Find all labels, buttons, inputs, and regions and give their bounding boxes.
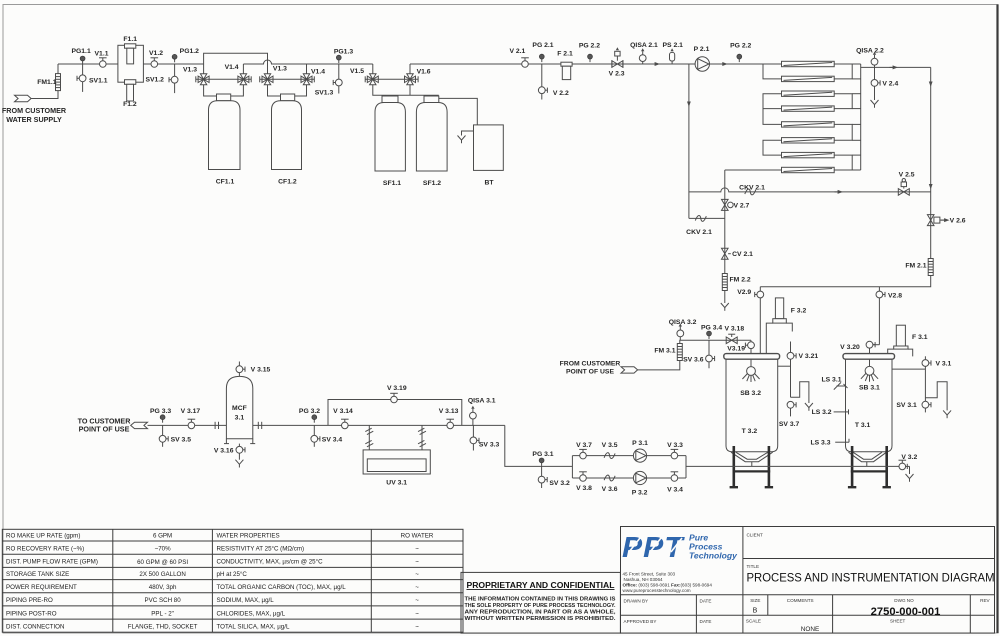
wire V1.5 riser	[372, 64, 374, 74]
svg-text:V 3.4: V 3.4	[667, 487, 683, 494]
tank T3.2 legs	[730, 446, 774, 487]
svg-text:V1.1: V1.1	[95, 51, 109, 58]
RO vessel 2	[782, 76, 835, 81]
valve V1.3 (CF1.1 inlet)	[183, 67, 209, 85]
flow meter FM2.2	[722, 274, 751, 291]
svg-text:~: ~	[415, 584, 419, 591]
wire RO permeate header	[852, 64, 861, 170]
svg-text:FM 2.2: FM 2.2	[730, 277, 751, 284]
svg-text:RESISTIVITY AT 25°C (MΩ/cm): RESISTIVITY AT 25°C (MΩ/cm)	[217, 545, 305, 552]
svg-text:V 3.15: V 3.15	[251, 367, 271, 374]
wire product drain	[871, 100, 879, 108]
svg-text:V1.3: V1.3	[183, 67, 197, 74]
proprietary notice box	[461, 572, 620, 633]
valve V1.4 (CF1.1 outlet)	[225, 64, 249, 85]
svg-text:SV 3.3: SV 3.3	[479, 442, 500, 449]
svg-text:THE INFORMATION CONTAINED IN T: THE INFORMATION CONTAINED IN THIS DRAWIN…	[465, 596, 616, 602]
svg-text:Technology: Technology	[689, 551, 738, 561]
flow arrow	[719, 62, 728, 66]
valve V3.3	[667, 442, 683, 459]
svg-text:V1.6: V1.6	[417, 69, 431, 76]
vent filter F3.2	[766, 298, 806, 354]
valve CV2.1	[722, 248, 754, 259]
valve V1.4 (CF1.2 outlet)	[301, 69, 325, 85]
wire RO right header stage4	[834, 155, 852, 170]
svg-text:V 3.8: V 3.8	[576, 485, 592, 492]
svg-text:V 3.7: V 3.7	[576, 442, 592, 449]
svg-text:PG 3.1: PG 3.1	[532, 451, 553, 458]
svg-text:V1.2: V1.2	[149, 50, 163, 57]
svg-text:2X 500 GALLON: 2X 500 GALLON	[139, 571, 185, 578]
svg-text:PIPING POST-RO: PIPING POST-RO	[6, 610, 57, 617]
wire BT drain	[458, 131, 474, 143]
svg-text:V 2.4: V 2.4	[882, 80, 898, 87]
svg-text:PG1.1: PG1.1	[71, 48, 90, 55]
svg-text:LS 3.1: LS 3.1	[821, 377, 841, 384]
RO vessel 3	[782, 91, 835, 96]
flex connector V3.6	[602, 475, 618, 493]
svg-text:PG 3.4: PG 3.4	[701, 324, 722, 331]
svg-text:FM 3.1: FM 3.1	[654, 348, 675, 355]
svg-text:F 3.2: F 3.2	[791, 308, 807, 315]
svg-text:~: ~	[415, 610, 419, 617]
svg-text:V 3.21: V 3.21	[799, 353, 819, 360]
svg-text:V 3.17: V 3.17	[181, 408, 201, 415]
svg-text:V 3.20: V 3.20	[840, 344, 860, 351]
svg-text:SV 3.7: SV 3.7	[779, 421, 800, 428]
node FROM CUSTOMER POINT OF USE flag	[560, 361, 638, 376]
svg-text:CF1.1: CF1.1	[216, 178, 235, 185]
svg-text:P 3.1: P 3.1	[632, 440, 648, 447]
flow arrow	[835, 190, 844, 194]
sample valve SV3.7	[779, 401, 800, 428]
wire RO concentrate drop B	[724, 170, 726, 218]
wire concentrate drain leg	[724, 218, 726, 303]
pressure switch PS2.1	[662, 42, 683, 64]
wire return riser	[680, 340, 751, 343]
svg-text:SF1.1: SF1.1	[383, 180, 401, 187]
svg-text:FROM CUSTOMER: FROM CUSTOMER	[560, 361, 621, 368]
svg-text:PPL - 2": PPL - 2"	[151, 610, 174, 617]
svg-text:PIPING PRE-RO: PIPING PRE-RO	[6, 597, 53, 604]
RO vessel 8	[782, 167, 835, 172]
sample valve SV3.3	[470, 425, 500, 450]
svg-text:SB 3.2: SB 3.2	[740, 390, 761, 397]
instrument QISA2.2	[856, 48, 884, 68]
valve V3.8	[576, 472, 592, 492]
svg-text:SCALE: SCALE	[746, 619, 761, 624]
wire to pump suction	[505, 425, 573, 466]
instrument QISA2.1	[630, 42, 658, 64]
wire RO left header stage3	[763, 140, 782, 155]
wire RO concentrate outlet	[725, 169, 782, 171]
wire tank drain	[906, 466, 914, 481]
wire RO right header stage1	[834, 64, 852, 79]
svg-text:~: ~	[415, 597, 419, 604]
svg-text:TOTAL SILICA, MAX, µg/L: TOTAL SILICA, MAX, µg/L	[217, 624, 290, 631]
wire UV inlet drop	[365, 425, 373, 450]
pump P3.1	[632, 440, 648, 462]
sample valve SV3.5	[159, 425, 191, 446]
svg-text:Nashua, NH 03064: Nashua, NH 03064	[624, 577, 664, 582]
valve V2.8	[876, 287, 902, 345]
sample valve SV3.2	[538, 466, 570, 488]
flex connector V3.5	[602, 442, 618, 459]
wire POU return	[638, 361, 680, 370]
valve V3.18	[724, 326, 744, 344]
wire T3.2 overflow air-gap	[791, 382, 813, 411]
svg-text:F 3.1: F 3.1	[912, 334, 928, 341]
svg-text:CF1.2: CF1.2	[278, 178, 297, 185]
svg-text:THE SOLE PROPERTY OF PURE PROC: THE SOLE PROPERTY OF PURE PROCESS TECHNO…	[465, 603, 616, 609]
svg-text:PG 3.3: PG 3.3	[150, 408, 171, 415]
svg-text:WATER SUPPLY: WATER SUPPLY	[6, 115, 62, 124]
wire concentrate line with jump-over	[689, 188, 931, 192]
svg-text:3.1: 3.1	[235, 415, 245, 422]
wire recycle drop A	[688, 64, 690, 218]
sample valve SV3.1	[896, 401, 931, 412]
svg-text:SIZE: SIZE	[750, 598, 760, 603]
flow meter FM2.1	[905, 259, 933, 276]
wire FM1.1 to main	[57, 64, 59, 74]
wire CF1.2 elbows	[268, 85, 281, 96]
svg-text:45 Front Street, Suite 303: 45 Front Street, Suite 303	[623, 572, 676, 577]
level switch LS3.1	[821, 377, 847, 390]
svg-text:FM1.1: FM1.1	[37, 79, 56, 86]
valve V3.14	[333, 408, 353, 429]
tank T3.2	[724, 354, 780, 467]
tank T3.1	[843, 354, 895, 467]
svg-text:UV 3.1: UV 3.1	[386, 480, 407, 487]
svg-text:~: ~	[415, 624, 419, 631]
svg-text:V 2.7: V 2.7	[733, 202, 749, 209]
svg-text:SF1.2: SF1.2	[423, 180, 441, 187]
svg-text:PG 2.2: PG 2.2	[579, 43, 600, 50]
filter cartridge F1.2	[123, 80, 137, 109]
tank BT brine	[474, 125, 504, 186]
svg-text:V 3.14: V 3.14	[333, 408, 353, 415]
svg-text:~: ~	[415, 571, 419, 578]
wire V1.4a riser	[242, 64, 244, 74]
pump P2.1	[694, 46, 710, 71]
svg-text:CONDUCTIVITY, MAX, µs/cm @ 25°: CONDUCTIVITY, MAX, µs/cm @ 25°C	[217, 559, 324, 566]
svg-text:ANY REPRODUCTION, IN PART OR A: ANY REPRODUCTION, IN PART OR AS A WHOLE,	[465, 609, 617, 615]
svg-text:V 3.16: V 3.16	[214, 447, 234, 454]
svg-text:V 2.3: V 2.3	[609, 71, 625, 78]
union fitting	[215, 422, 218, 429]
svg-text:NONE: NONE	[801, 626, 819, 633]
svg-text:FLANGE, THD, SOCKET: FLANGE, THD, SOCKET	[128, 624, 198, 631]
valve V3.15	[236, 362, 271, 377]
valve V3.2	[899, 454, 918, 470]
wire UV outlet riser	[418, 425, 426, 450]
valve V3.13	[439, 408, 459, 429]
gauge PG3.1	[532, 451, 553, 466]
wire softener elbows	[373, 85, 382, 96]
svg-text:PG 2.2: PG 2.2	[730, 43, 751, 50]
wire V1.3a riser	[203, 64, 205, 74]
svg-text:PS 2.1: PS 2.1	[662, 42, 683, 49]
svg-text:SHEET: SHEET	[890, 619, 906, 624]
wire CF1.1 elbows	[204, 85, 217, 96]
sample valve SV3.4	[311, 425, 343, 446]
svg-text:V 3.18: V 3.18	[724, 326, 744, 333]
valve V2.7	[722, 199, 750, 210]
wire distribution main	[148, 424, 505, 426]
valve V2.4	[871, 67, 898, 100]
gauge PG3.2	[299, 408, 320, 423]
wire CF1.2 valve run	[260, 76, 315, 82]
gauge PG1.2	[172, 48, 199, 62]
valve V3.4	[667, 472, 683, 494]
valve V3.1 (T3.1 overflow)	[892, 356, 952, 401]
svg-text:WITHOUT WRITTEN PERMISSION IS: WITHOUT WRITTEN PERMISSION IS PROHIBITED…	[465, 616, 617, 622]
svg-text:CV 2.1: CV 2.1	[732, 251, 753, 258]
flow arrow	[890, 65, 899, 69]
svg-text:2750-000-001: 2750-000-001	[871, 606, 941, 618]
svg-text:V1.4: V1.4	[225, 64, 239, 71]
wire RO left header stage1	[763, 64, 782, 79]
svg-text:6 GPM: 6 GPM	[153, 533, 172, 540]
svg-text:F1.2: F1.2	[123, 101, 137, 108]
svg-text:COMMENTS: COMMENTS	[787, 598, 814, 603]
sample valve SV1.3	[315, 64, 342, 97]
svg-text:PG1.3: PG1.3	[334, 48, 353, 55]
title block labels	[624, 533, 995, 634]
svg-text:CLIENT: CLIENT	[747, 533, 764, 538]
svg-text:DATE: DATE	[700, 598, 712, 603]
wire V1.4b riser	[306, 64, 308, 74]
gauge PG2.1	[532, 42, 553, 62]
svg-text:SV1.3: SV1.3	[315, 90, 334, 97]
spray ball SB3.2	[740, 367, 761, 397]
wire product down-leg	[930, 67, 932, 259]
wire RO left header stage2	[763, 94, 782, 125]
svg-text:PG 3.2: PG 3.2	[299, 408, 320, 415]
svg-text:PROCESS AND INSTRUMENTATION DI: PROCESS AND INSTRUMENTATION DIAGRAM	[747, 571, 995, 585]
svg-text:V 3.3: V 3.3	[667, 442, 683, 449]
wire carbon filter bypass header	[204, 53, 268, 74]
svg-text:QISA 3.1: QISA 3.1	[468, 398, 496, 405]
node FROM CUSTOMER WATER SUPPLY flag	[2, 95, 67, 124]
svg-text:~: ~	[415, 545, 419, 552]
svg-text:V2.8: V2.8	[888, 293, 902, 300]
instrument QISA3.2	[669, 319, 697, 340]
svg-text:F 2.1: F 2.1	[557, 50, 573, 57]
wire main segment C with jump-over	[243, 60, 372, 64]
RO vessel 6	[782, 138, 835, 143]
valve V2.6	[927, 215, 965, 226]
flow arrow	[652, 62, 661, 66]
wire concentrate drain	[721, 303, 729, 311]
svg-text:V1.3: V1.3	[273, 66, 287, 73]
svg-text:POINT OF USE: POINT OF USE	[566, 369, 614, 376]
wire pump manifold	[572, 456, 686, 478]
vent filter F3.1	[888, 325, 928, 358]
svg-text:DIST. CONNECTION: DIST. CONNECTION	[6, 624, 64, 631]
instrument QISA3.1	[468, 398, 496, 426]
valve V3.19 (tank inlet)	[727, 340, 754, 366]
svg-text:V 2.2: V 2.2	[553, 90, 569, 97]
wire main segment A	[58, 63, 118, 65]
svg-text:F1.1: F1.1	[123, 36, 137, 43]
wire recycle run	[689, 217, 725, 219]
svg-text:CHLORIDES, MAX, µg/L: CHLORIDES, MAX, µg/L	[217, 610, 286, 617]
level switch LS3.3	[810, 439, 849, 447]
svg-text:PVC SCH 80: PVC SCH 80	[145, 597, 182, 604]
svg-text:V 3.1: V 3.1	[935, 361, 951, 368]
gauge PG3.4	[701, 324, 722, 339]
RO vessel 5	[782, 122, 835, 127]
svg-text:V3.19: V3.19	[727, 345, 745, 352]
svg-text:Office: (603) 598-0691 Fax:(60: Office: (603) 598-0691 Fax:(603) 598-069…	[623, 583, 713, 588]
svg-text:P 2.1: P 2.1	[694, 46, 710, 53]
svg-text:DATE: DATE	[700, 619, 712, 624]
check valve CKV2.1	[739, 184, 765, 194]
valve V1.5	[350, 68, 378, 85]
sample valve SV3.6	[683, 340, 715, 368]
pump P3.2	[632, 471, 648, 496]
svg-text:APPROVED BY: APPROVED BY	[624, 619, 657, 624]
svg-text:TOTAL ORGANIC CARBON (TOC), MA: TOTAL ORGANIC CARBON (TOC), MAX, µg/L	[217, 584, 347, 591]
gauge PG1.1	[71, 48, 90, 64]
wire main segment D	[410, 63, 782, 65]
vessel MCF3.1	[224, 376, 255, 443]
valve V3.7	[576, 442, 592, 459]
valve V1.6	[405, 69, 431, 85]
svg-text:QISA 2.1: QISA 2.1	[630, 42, 658, 49]
svg-text:BT: BT	[484, 179, 494, 186]
valve V1.1	[95, 51, 109, 68]
svg-text:RO WATER: RO WATER	[401, 533, 434, 540]
wire RO right header stage3	[834, 124, 852, 140]
gauge PG2.2	[579, 43, 600, 63]
svg-text:SV 3.5: SV 3.5	[171, 437, 192, 444]
svg-text:480V, 3ph: 480V, 3ph	[149, 584, 177, 591]
valve V3.17	[181, 408, 201, 429]
svg-text:LS 3.3: LS 3.3	[810, 440, 830, 447]
valve V3.20 (T3.1 inlet)	[840, 341, 879, 366]
svg-text:SB 3.1: SB 3.1	[859, 384, 880, 391]
valve V1.2	[149, 50, 163, 67]
valve V1.3 (CF1.2 inlet)	[262, 66, 287, 85]
flow meter FM3.1	[654, 344, 682, 361]
wire brine line to BT	[439, 98, 478, 125]
svg-text:pH at 25°C: pH at 25°C	[217, 571, 248, 578]
svg-text:SV 3.6: SV 3.6	[683, 356, 704, 363]
union fitting	[258, 422, 261, 429]
spray ball SB3.1	[859, 366, 880, 391]
valve V3.19 (UV bypass)	[387, 385, 407, 403]
wire supply inlet	[31, 91, 58, 99]
svg-text:V 3.6: V 3.6	[602, 486, 618, 493]
svg-text:V 2.5: V 2.5	[899, 172, 915, 179]
wire pump discharge to tanks	[686, 465, 899, 467]
svg-text:DRAWN BY: DRAWN BY	[624, 598, 649, 603]
svg-text:T 3.2: T 3.2	[742, 428, 758, 435]
svg-text:~70%: ~70%	[155, 545, 171, 552]
tank CF1.2	[272, 94, 302, 185]
svg-text:SV 3.4: SV 3.4	[322, 437, 343, 444]
svg-text:PG1.2: PG1.2	[180, 48, 199, 55]
valve V2.5	[898, 172, 914, 196]
svg-text:SV 3.2: SV 3.2	[549, 480, 570, 487]
gauge PG1.3	[334, 48, 353, 63]
wire RO right header stage2	[834, 94, 852, 109]
wire softener valve run	[365, 76, 418, 82]
svg-text:V 2.1: V 2.1	[509, 48, 525, 55]
svg-text:60 GPM @ 60 PSI: 60 GPM @ 60 PSI	[137, 559, 188, 566]
svg-text:P 3.2: P 3.2	[632, 490, 648, 497]
svg-text:CKV 2.1: CKV 2.1	[739, 184, 765, 191]
svg-text:POWER REQUIREMENT: POWER REQUIREMENT	[6, 584, 77, 591]
svg-text:SV1.2: SV1.2	[145, 77, 164, 84]
wire product line	[861, 66, 931, 68]
wire to tank header	[760, 276, 930, 287]
valve V2.2	[538, 64, 569, 100]
svg-text:T 3.1: T 3.1	[855, 422, 871, 429]
tank CF1.1	[209, 94, 241, 185]
svg-text:V 3.2: V 3.2	[901, 454, 917, 461]
svg-text:STORAGE TANK SIZE: STORAGE TANK SIZE	[6, 571, 69, 578]
UV unit UV3.1	[363, 450, 430, 487]
svg-text:QISA 3.2: QISA 3.2	[669, 319, 697, 326]
valve V3.16	[214, 444, 245, 468]
sample valve SV1.2	[145, 64, 178, 93]
gauge PG3.3	[150, 408, 171, 423]
valve V2.1	[509, 48, 528, 67]
tank SF1.1	[375, 96, 405, 187]
valve V2.3	[609, 47, 625, 77]
svg-text:B: B	[753, 608, 758, 615]
RO vessel 4	[782, 106, 835, 111]
gauge PG2.2 (pump discharge)	[730, 43, 751, 63]
svg-text:V 2.6: V 2.6	[950, 217, 966, 224]
svg-text:TITLE: TITLE	[747, 564, 760, 569]
svg-text:V2.9: V2.9	[737, 289, 751, 296]
svg-text:V 3.13: V 3.13	[439, 408, 459, 415]
svg-text:~: ~	[415, 559, 419, 566]
svg-text:WATER PROPERTIES: WATER PROPERTIES	[217, 533, 280, 540]
svg-text:SV 3.1: SV 3.1	[896, 402, 917, 409]
svg-text:V1.5: V1.5	[350, 68, 364, 75]
svg-text:LS 3.2: LS 3.2	[812, 409, 832, 416]
svg-text:SODIUM, MAX, µg/L: SODIUM, MAX, µg/L	[217, 597, 275, 604]
check valve CKV2.1 (recycle)	[686, 215, 712, 236]
svg-text:FM 2.1: FM 2.1	[905, 263, 926, 270]
wire main segment B	[143, 63, 203, 65]
svg-text:POINT OF USE: POINT OF USE	[79, 425, 130, 434]
svg-text:DIST. PUMP FLOW RATE (GPM): DIST. PUMP FLOW RATE (GPM)	[6, 559, 98, 566]
wire V1.6 riser	[409, 64, 411, 74]
tank SF1.2	[416, 96, 447, 187]
RO vessel 7	[782, 152, 835, 157]
svg-text:www.pureprocesstechnology.com: www.pureprocesstechnology.com	[623, 588, 691, 593]
tank T3.1 legs	[848, 446, 891, 487]
filter housing F1.1	[118, 36, 143, 82]
valve V2.9	[737, 287, 763, 354]
wire T3.1 overflow air-gap	[925, 382, 951, 418]
PPT logo	[622, 532, 738, 593]
svg-text:V1.4: V1.4	[311, 69, 325, 76]
svg-text:QISA 2.2: QISA 2.2	[856, 48, 884, 55]
valve V3.21 (T3.2 overflow)	[778, 342, 819, 398]
wire CF1.1 valve run	[196, 76, 251, 82]
svg-text:MCF: MCF	[232, 405, 247, 412]
svg-text:PG 2.1: PG 2.1	[532, 42, 553, 49]
svg-text:DWG NO: DWG NO	[894, 598, 914, 603]
flow meter FM1.1	[37, 74, 60, 91]
